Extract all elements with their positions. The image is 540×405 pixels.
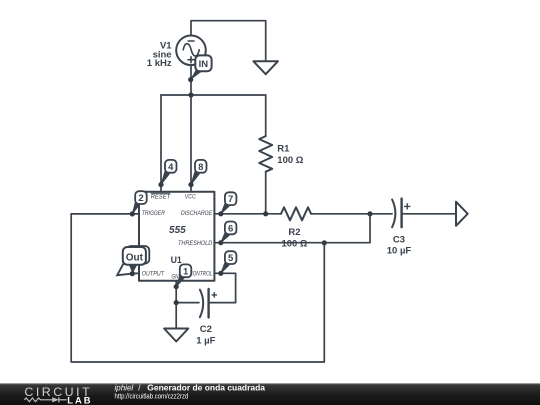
svg-text:R1: R1 (277, 144, 290, 155)
svg-text:OUTPUT: OUTPUT (142, 271, 165, 278)
wire C2 left (176, 302, 199, 304)
svg-text:R2: R2 (288, 227, 300, 238)
svg-text:5: 5 (228, 253, 234, 264)
label R2 (196, 227, 411, 347)
svg-text:100 Ω: 100 Ω (277, 155, 303, 166)
wire feedback loop (71, 214, 324, 362)
svg-text:IN: IN (199, 59, 209, 70)
svg-text:C2: C2 (200, 324, 212, 335)
IC U1 body (139, 192, 214, 281)
svg-text:http://circuitlab.com/czz2rzd: http://circuitlab.com/czz2rzd (115, 393, 189, 400)
svg-text:2: 2 (138, 193, 143, 204)
pin 1 GND wire (175, 281, 177, 329)
pin 6 THRESHOLD wire (214, 242, 370, 244)
junction and pin dots (130, 77, 373, 305)
wire C3 to arrow (402, 213, 456, 215)
flag 1 tail (176, 276, 184, 287)
label V1 (147, 41, 173, 70)
ground (bottom) (164, 329, 188, 342)
resistor R2 (281, 207, 312, 220)
pin 4 stub (160, 185, 162, 192)
wire V1 top to ground (191, 21, 266, 62)
svg-text:Generador de onda cuadrada: Generador de onda cuadrada (147, 384, 265, 393)
svg-text:U1: U1 (171, 255, 182, 265)
svg-text:100 Ω: 100 Ω (281, 239, 307, 250)
flag 8 tail (191, 172, 199, 185)
capacitor C3 (392, 200, 395, 228)
flag 7 tail (221, 204, 229, 214)
wire bus under V1 (161, 94, 266, 96)
Out flag (123, 247, 146, 265)
wire node to threshold (369, 214, 371, 243)
svg-text:1 µF: 1 µF (196, 336, 215, 347)
footer bar (0, 383, 540, 405)
svg-text:555: 555 (169, 225, 186, 236)
IN flag (195, 55, 211, 71)
wire V1 bottom (190, 65, 192, 95)
Out flag tails (117, 264, 132, 276)
pin 2 TRIGGER wire (71, 213, 139, 215)
svg-text:1 kHz: 1 kHz (147, 58, 172, 69)
svg-text:CONTROL: CONTROL (189, 271, 212, 278)
svg-text:7: 7 (228, 194, 233, 205)
flag 4 tail (161, 172, 169, 185)
svg-text:C3: C3 (393, 234, 405, 245)
svg-text:THRESHOLD: THRESHOLD (178, 240, 213, 247)
pin 8 stub (190, 185, 192, 192)
flag 3 behind Out (127, 246, 150, 264)
pin 5 CONTROL wire (210, 273, 236, 302)
ground (top right) (253, 61, 278, 74)
wire to R1 (265, 95, 267, 136)
wire to pin 8 (190, 95, 192, 185)
IN flag tail (190, 68, 203, 80)
svg-text:DISCHARGE: DISCHARGE (181, 210, 213, 217)
IC pin names (142, 193, 213, 280)
pin flag tails (132, 172, 229, 287)
svg-text:1: 1 (183, 266, 189, 277)
svg-text:10 µF: 10 µF (387, 246, 412, 257)
pin number flags (135, 160, 236, 277)
logo squiggle (24, 397, 66, 402)
wire R1 bottom (265, 172, 267, 214)
capacitor C2 (200, 290, 203, 318)
wire R2 to C3 (312, 213, 392, 215)
flag 2 tail (132, 203, 139, 214)
svg-text:4: 4 (168, 162, 174, 173)
svg-text:8: 8 (198, 162, 203, 173)
pin 3 OUTPUT stub (132, 272, 139, 274)
wire to pin 4 (160, 95, 162, 185)
svg-text:LAB: LAB (67, 395, 92, 405)
svg-text:TRIGGER: TRIGGER (142, 210, 165, 217)
svg-text:6: 6 (228, 223, 233, 234)
voltage source V1 (176, 36, 206, 66)
svg-text:RESET: RESET (151, 194, 171, 201)
flag 5 tail (221, 263, 229, 273)
svg-text:iphiel: iphiel (115, 384, 134, 393)
svg-text:Out: Out (126, 252, 144, 263)
svg-text:VCC: VCC (185, 194, 196, 201)
output arrow port (456, 202, 468, 226)
pin 7 DISCHARGE wire (214, 213, 281, 215)
resistor R1 (259, 136, 272, 172)
flag 6 tail (221, 233, 229, 243)
